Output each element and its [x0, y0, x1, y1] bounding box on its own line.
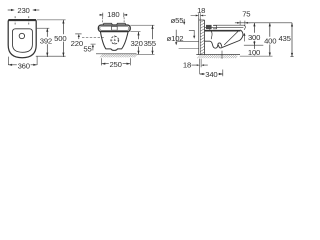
dim 230 left arrowhead [11, 9, 15, 11]
bowl inner profile [224, 31, 238, 45]
dim 400 text [264, 37, 277, 44]
floor line side view [196, 54, 240, 56]
dim 75 ticks [240, 21, 245, 26]
svg-text:320: 320 [130, 39, 142, 48]
front view rim inner contour [100, 26, 129, 30]
dim 300 line [253, 23, 255, 45]
dim 355 arrowheads [151, 25, 153, 54]
dim 18 top arrowheads [196, 15, 204, 17]
dim 392 text [40, 37, 53, 44]
dim 250 ticks [102, 58, 131, 65]
reference top line [238, 22, 292, 24]
trap axis line [221, 51, 223, 59]
front view floor line [96, 53, 137, 55]
dim 360 extension left [7, 57, 9, 65]
dim 180 ticks [103, 13, 124, 18]
dim 320 text [130, 39, 143, 46]
dim 250 line [102, 63, 131, 65]
front view floor hatch [100, 54, 137, 57]
dim 360 extension right [36, 56, 38, 65]
svg-text:18: 18 [183, 61, 191, 70]
svg-text:500: 500 [54, 34, 66, 43]
seat lid second line [205, 26, 244, 28]
dim 230 line right [36, 9, 39, 11]
dim 180 dashed extensions [102, 17, 124, 23]
wall top cap [199, 19, 205, 21]
dim 392 extension line [37, 27, 50, 29]
svg-text:ø55: ø55 [171, 16, 184, 25]
svg-text:400: 400 [264, 36, 276, 45]
dim 100 line [254, 45, 256, 49]
dim 392 line [46, 28, 48, 57]
dim 340 extension right [222, 70, 224, 77]
svg-text:250: 250 [109, 60, 121, 69]
floor hatch side view [197, 55, 237, 58]
dim 18 bottom tails [192, 64, 208, 66]
level line L1 [244, 44, 263, 46]
plan view inner seat opening [13, 29, 33, 53]
wall middle line [199, 18, 201, 55]
pan back bowl line [209, 29, 212, 39]
dim 340 arrowheads [200, 73, 223, 75]
dim 18 bottom arrowheads [197, 64, 204, 66]
front view outlet dashed circle [111, 36, 119, 44]
outlet pipe behind wall bottom [179, 47, 199, 49]
dim 435 arrowheads [291, 23, 293, 57]
dim 400 line [269, 23, 271, 56]
plan view fixing bolt dashed line right [28, 16, 30, 25]
svg-text:18: 18 [197, 6, 205, 15]
wall lines below floor [200, 59, 201, 74]
dim 500 arrowheads [62, 20, 64, 56]
dim 360 arrowheads [8, 64, 37, 66]
dim 320 line [138, 32, 140, 55]
dim 75 tails [235, 22, 251, 24]
plan view outer bowl outline [8, 20, 36, 58]
svg-text:230: 230 [17, 6, 29, 15]
hinge block [206, 25, 212, 29]
level line L2 [240, 55, 273, 57]
front view rim capsule thick [98, 25, 130, 32]
plan view fixing bolt dashed line left [14, 16, 16, 25]
svg-text:100: 100 [248, 48, 260, 57]
dim 400 arrowheads [269, 23, 271, 56]
svg-text:75: 75 [242, 10, 250, 19]
plan view flush hole circle [19, 33, 24, 38]
dim 355 extension [130, 24, 154, 26]
dim 18 top ticks [199, 13, 201, 17]
front view hinge bumps [103, 23, 126, 25]
hinge block side box [213, 25, 217, 28]
dim 300 text [248, 33, 261, 40]
dim 500 text [54, 34, 67, 41]
svg-text:355: 355 [144, 39, 156, 48]
svg-text:220: 220 [71, 39, 83, 48]
dim 500 line [62, 20, 64, 57]
trap U curve [205, 41, 222, 48]
svg-text:180: 180 [107, 10, 119, 19]
svg-text:340: 340 [205, 70, 217, 79]
outlet circle centerlines [110, 35, 119, 45]
wall back line [198, 18, 200, 55]
rim top thick line [205, 30, 241, 32]
dim 355 text [144, 39, 157, 46]
dim 355 line [152, 25, 154, 54]
dim 55 tick line [91, 43, 96, 45]
dim 340 text [205, 71, 218, 78]
dim 320 arrowheads [137, 32, 139, 55]
lid front wedge [244, 25, 245, 30]
wall face line [204, 20, 206, 55]
dim 360 text [17, 62, 31, 69]
dim 250 text [109, 60, 123, 67]
dim 340 line [200, 73, 223, 75]
label ø102 arrow [175, 30, 177, 43]
dim 220 tick line [75, 33, 81, 35]
dim 18 top tails [191, 15, 206, 17]
svg-text:360: 360 [18, 62, 30, 71]
dim 100 arrowhead [254, 53, 256, 56]
svg-text:392: 392 [40, 36, 52, 45]
svg-text:55: 55 [83, 45, 91, 54]
svg-text:435: 435 [278, 34, 290, 43]
dim 75 arrowheads [237, 22, 248, 24]
front view inlet box center [112, 26, 118, 30]
inlet leader corner [189, 30, 194, 36]
outlet pipe behind wall top [177, 41, 199, 43]
plan view top wall edge thick [8, 19, 36, 21]
dim 360 line [8, 64, 37, 66]
dim 100 text [248, 49, 261, 55]
dim 220 arrow [78, 37, 80, 40]
dim 180 arrowheads [100, 14, 127, 16]
front view body [100, 32, 128, 51]
dim 230 line left [8, 9, 11, 11]
dim 180 line [100, 14, 128, 16]
dim 320 extension [130, 31, 140, 33]
dim 435 line [291, 23, 293, 57]
seat lid top line [213, 24, 244, 26]
dim 55 arrow [92, 47, 94, 50]
label ø55 arrow [183, 19, 185, 22]
dashed reference line [82, 37, 105, 39]
svg-text:300: 300 [248, 33, 260, 42]
pan front and underside profile [218, 30, 243, 48]
dim 500 extension top [37, 19, 66, 21]
dim 250 arrowheads [102, 63, 131, 65]
dim 75 extension arrow down [243, 36, 245, 42]
dim 230 right arrowhead [32, 9, 36, 11]
dim 392 arrowheads [46, 28, 48, 56]
dim 500 extension bottom [36, 55, 66, 57]
floor extension right [137, 53, 155, 55]
dim 435 end tick [290, 56, 293, 58]
wall hatch [200, 20, 204, 55]
dim 300 arrowheads [253, 23, 255, 45]
